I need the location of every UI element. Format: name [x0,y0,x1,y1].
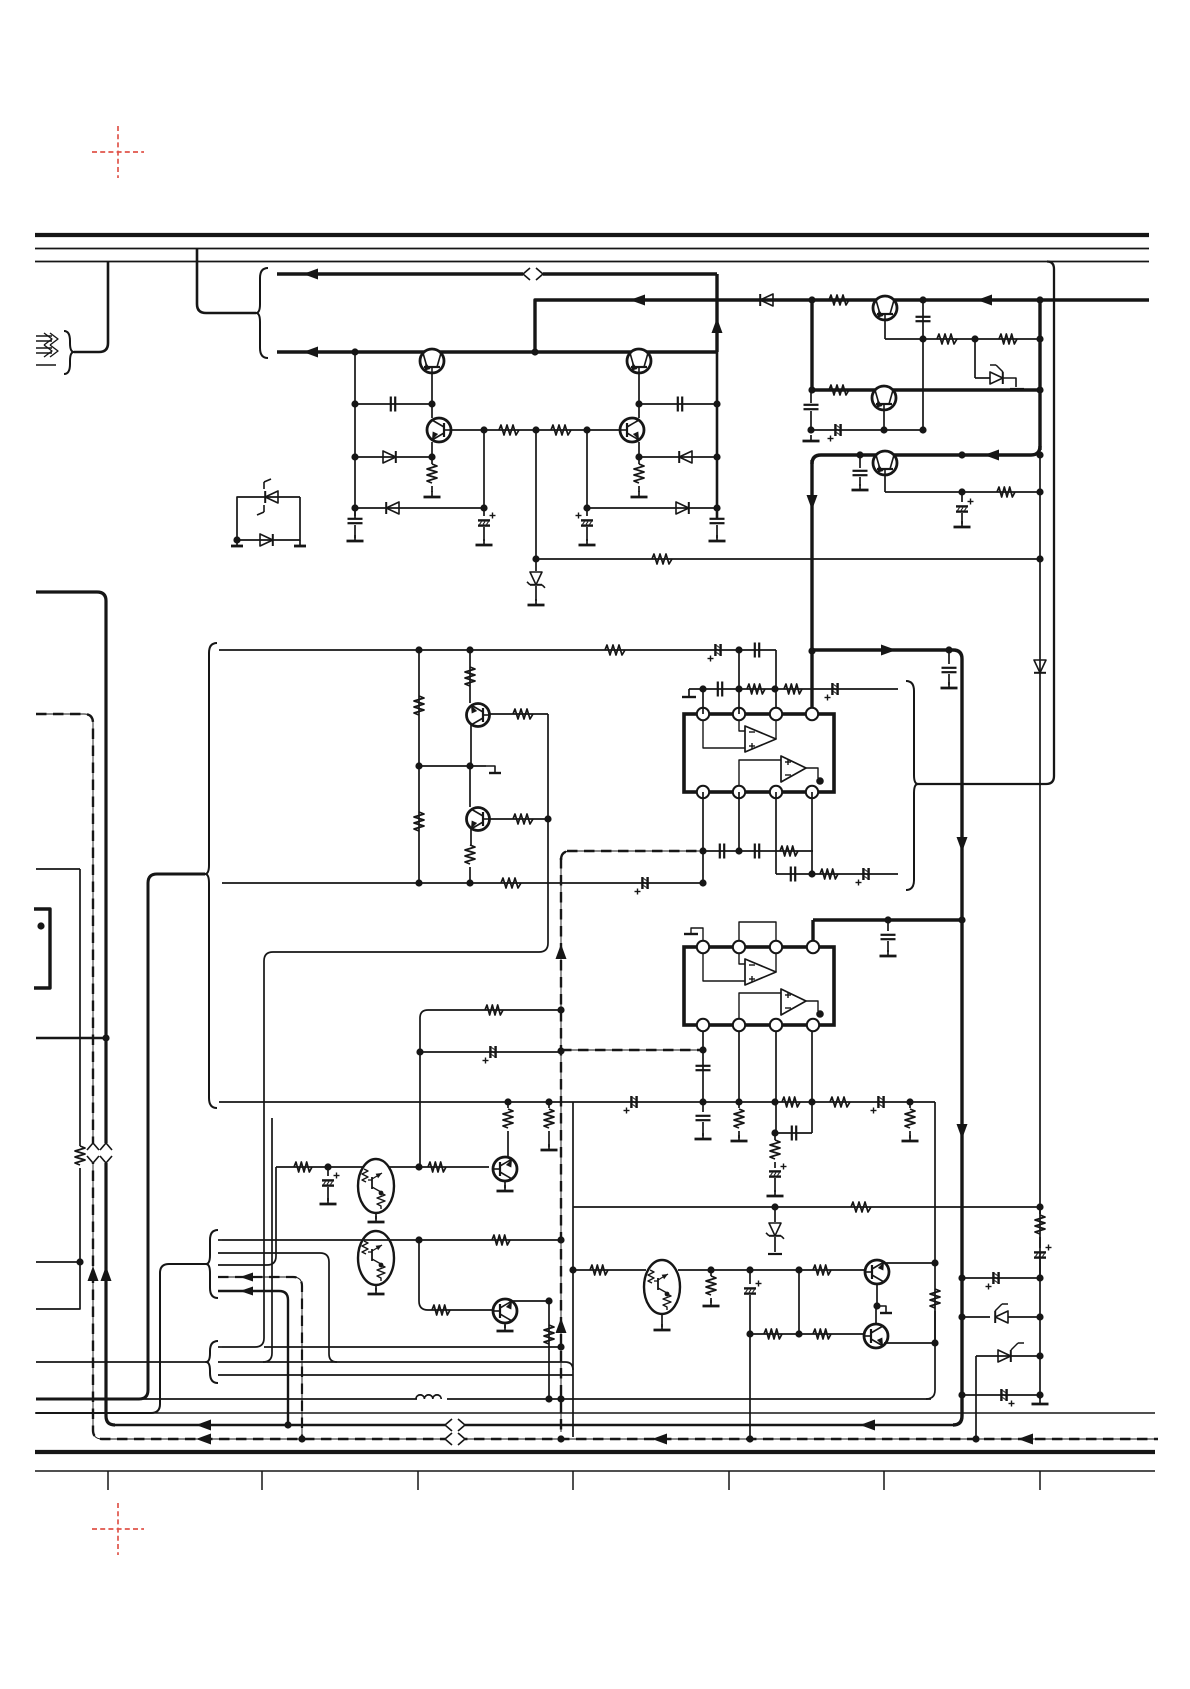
zener D301 (vert) [766,1207,784,1252]
dashed stub y851 [567,850,703,852]
transistor Q308 [865,1260,889,1284]
ground R322 [541,1144,558,1150]
wire x1040 thick upper [1038,300,1041,450]
resistor R305 (vert) [465,667,475,686]
digital transistor Q307 [644,1260,680,1314]
wire input stub [36,364,56,366]
capacitor C302 (elect) [708,644,721,662]
capacitor C452 in x812 [804,405,819,409]
wire x776 pin->y874 [775,792,777,874]
ground Q307 [654,1324,671,1330]
junction x1040/y1356 [1036,1352,1043,1359]
wire return bus y1425 [113,1424,953,1426]
ground x1040 end [1032,1398,1049,1404]
junction y1399/x561 [557,1395,564,1402]
resistor R330 [813,1265,831,1275]
break x106 [100,1143,112,1163]
wire harness line2 [218,1253,337,1362]
arrow down x812 [807,495,818,510]
junction dashed bus x750 [746,1435,753,1442]
brace signal group left [205,643,217,1108]
op-amp U301 pins [697,708,818,798]
ground below R403 [424,491,441,497]
ground below C406 [709,535,726,541]
junction SCR cell [233,536,240,543]
capacitor C309 [791,867,795,882]
wire y851 row [703,850,813,852]
wire Q451 emitter [884,320,886,339]
ground R329 [703,1300,720,1306]
ground below C405 [347,535,364,541]
junction x1040/y559 [1036,555,1043,562]
resistor R319 [851,1202,871,1212]
wire bottom thin rail [35,1412,1155,1414]
ground C455 [954,521,971,527]
wire y920 feed (thick) [813,918,962,921]
ground C317 [767,1190,784,1196]
wire Q307 out [678,1269,865,1271]
junction x1040/y455 [1036,451,1043,458]
junction x484 low [480,504,487,511]
wire left column x355 [354,352,356,519]
junction arrowbus x288 [284,1421,291,1428]
wire Q452 emitter [883,410,885,430]
junction x717 cap row [713,400,720,407]
wire Q403 base row [451,429,620,431]
resistor R307 [513,709,533,719]
resistor R404 (vert) [634,457,644,492]
wire x470 upper [469,650,471,703]
wire x739 pin->1102 [738,1031,740,1102]
junction x1040/y390 [1036,386,1043,393]
junction x739/y650 [735,646,742,653]
diode D407 [260,534,273,546]
junction Q401e [428,400,435,407]
junction x419/y883 [415,879,422,886]
junction Q404e [635,453,642,460]
capacitor C324 (elect) [483,1046,496,1064]
wire y1052 row [420,1051,561,1053]
arrow harness line4 [240,1273,253,1282]
op-amp U301 amp A [745,726,776,752]
capacitor C311 [881,920,896,952]
wire y1278 row [962,1277,1040,1279]
junction x812/y390 [808,386,815,393]
wire y1270 row [573,1269,646,1271]
resistor R327 (vert) [544,1325,554,1344]
junction x548/y819 [544,815,551,822]
brace input arrows [64,331,74,374]
ground C454 [852,484,869,490]
transistor Q452 [872,386,896,410]
junction x1040/y339 [1036,335,1043,342]
wire harness line8 [218,1374,573,1376]
wire y1010 row [420,1010,561,1167]
wire y455 rail (thick) [812,446,1040,464]
ground SCR right [294,540,306,546]
wire bottom frame line [35,1470,1155,1472]
diode D404 [676,502,689,514]
ground Q305 [368,1288,385,1294]
junction y352/x535 [531,348,538,355]
signal arrow in 2 [36,345,58,357]
junction Q452e [880,426,887,433]
wire x470 mid [469,766,471,807]
op-amp U301 body [684,714,834,792]
wire x812 rail (thick) [810,300,813,390]
junction x975/y339 [971,335,978,342]
wire top bus 3 [35,261,1149,263]
junction y352/x355 [351,348,358,355]
op-amp U302 amp B [781,989,806,1015]
wire y1133 row [775,1132,812,1134]
junction x739/y1102 [735,1098,742,1105]
junction x1040/y300 [1036,296,1043,303]
capacitor C402 [678,397,682,412]
wire y1262 stub [36,1261,80,1263]
junction x812/y651 [808,647,815,654]
junction x549/y1102 [545,1098,552,1105]
capacitor C320 (elect) [1034,1245,1052,1279]
ground SCR left [231,540,243,546]
resistor R454 [829,385,849,395]
capacitor C303 [755,643,759,658]
signal arrow in 1 [36,333,58,345]
thyristor D303 [976,1343,1040,1362]
wire right column x717 [716,352,719,519]
junction x799/y1270 [795,1266,802,1273]
arrow up dashed x561 b [556,1318,567,1333]
wire top bus B+ (thick) [35,233,1149,237]
thyristor D452 [975,365,1024,389]
op-amp U302 body [684,947,834,1025]
wire Q303 gnd [375,1213,377,1219]
junction dashed bus x302 [298,1435,305,1442]
wire x587 column [586,430,588,516]
arrow on y300 [630,295,645,306]
wire elbow from bus3 to input brace [74,262,108,352]
resistor R335 [485,1005,503,1015]
capacitor C401 [391,397,395,412]
op-amp U301 wiring [703,720,818,786]
wire x776 pin->1133 [775,1031,777,1133]
wire x812 lower (thick) [810,460,813,711]
triac D406 [257,479,278,515]
resistor R325 [492,1235,510,1245]
capacitor C312 [696,1066,711,1070]
junction x508/y1102 [504,1098,511,1105]
junction x812/y300 [808,296,815,303]
junction emitters [873,1302,880,1309]
junction x419/y1240 [415,1236,422,1243]
wire Q453 emitter [884,475,886,492]
junction x80 y1262 [76,1258,83,1265]
op-amp U302 pin5 dot [816,1010,824,1018]
wire x80 bottom hook [36,1262,80,1309]
wire y1399 inductor run [143,1398,931,1400]
transistor Q301 [467,704,490,727]
junction x923/y300 [919,296,926,303]
junction x573/y1270 [569,1266,576,1273]
junction x949/y650 [945,646,952,653]
junction x470/y883 [466,879,473,886]
transistor Q306 [493,1299,517,1323]
wire y559 to right rail [536,558,1040,560]
op-amp U302 wiring [703,953,818,1019]
wire Q301 base [490,713,548,715]
junction x536 y559 [532,555,539,562]
junction x355 low diode row [351,504,358,511]
diode D451 in y300 [760,294,773,306]
wire Q305 gnd [375,1285,377,1291]
wire x703 pin->y851 [702,792,704,883]
brace harness lower [206,1341,218,1383]
wire x419 hook to Q306 [419,1240,493,1310]
transistor Q302 [467,808,490,831]
junction x935/y1343 [931,1339,938,1346]
bar below D301 [768,1253,782,1255]
junction dashed x561/y1240 [557,1236,564,1243]
capacitor C404 (elect) [576,513,594,542]
wire y650 row [219,649,776,651]
ground below C403 [476,539,493,545]
transistor Q309 [864,1324,888,1348]
resistor R318 (vert) [770,1133,780,1168]
break x93 [87,1143,99,1163]
ground R317 [902,1135,919,1141]
wire y274 feedback (thick) [277,272,717,275]
junction x484 base row [480,426,487,433]
junction x888/y920 [884,916,891,923]
wire low diode row R [587,507,717,509]
wire Q308 collector [884,1262,935,1264]
junction x1040/y1278 [1036,1274,1043,1281]
wire Q304 emitter [504,1181,506,1188]
wire Q404 collector [638,404,640,418]
resistor R308 [513,814,533,824]
ground C323 [941,682,958,688]
tap ground y689 [682,689,696,697]
wire y1207 row [573,1206,1040,1208]
resistor R321 (vert) [503,1102,513,1157]
wire Q404 emitter [638,442,640,457]
diode D403 [386,502,399,514]
transistor Q451 [873,296,897,320]
junction dashed x561/y1347 [557,1343,564,1350]
junction dashed x561/y1010 [557,1006,564,1013]
brace IC1 output [906,681,918,890]
wire low diode row L [355,507,484,509]
ground Q304 [497,1185,514,1191]
ground below R404 [631,491,648,497]
wire bus3 elbow to x1054 [916,262,1054,785]
op-amp U301 pin5 dot [816,777,824,785]
resistor R311 [784,684,802,694]
wire brace5 feed [36,1264,206,1413]
resistor R309 [501,878,521,888]
diode D402 [679,451,692,463]
wire Q403 emitter [431,442,433,457]
junction Q403e [428,453,435,460]
wire harness line3 [218,1167,276,1265]
resistor R453 [999,334,1017,344]
capacitor C314 [696,1102,711,1136]
junction dashed end y851 [699,847,706,854]
wire x923 column [922,300,924,430]
junction x910/y1102 [906,1098,913,1105]
junction dashed x561/y1050 [557,1047,564,1054]
capacitor C306 (elect) [825,683,838,701]
capacitor C319 (elect) [744,1270,762,1334]
wire top bus 2 [35,248,1149,250]
ground Q303 [368,1216,385,1222]
wire bottom ground bus (thick) [35,1450,1155,1454]
resistor R403 (vert) [427,457,437,492]
arrow up on x717 [712,318,723,333]
junction Q402e [635,400,642,407]
junction x811/y430 [807,426,814,433]
ground C314 [695,1133,712,1139]
resistor R333 (vert) [930,1289,940,1343]
junction x962/y1317 [958,1313,965,1320]
junction x812/y874 [808,870,815,877]
junction x750/y1270 [746,1266,753,1273]
resistor R407 [652,554,672,564]
resistor R328 [590,1265,608,1275]
wire x776 drop [775,650,777,714]
arrow on y352 [303,347,318,358]
junction x962/y455 [958,451,965,458]
junction x799/y1334 [795,1330,802,1337]
resistor R405 [499,425,519,435]
wire x799 link [798,1270,800,1334]
resistor R322 (vert) [544,1102,554,1147]
ground below D405 [528,599,545,605]
op-amp U302 pins [697,941,819,1031]
junction x812/y1102 [808,1098,815,1105]
junction x923/y339 [919,335,926,342]
wire Q403 collector [431,404,433,418]
wire Q302 emitter [470,828,472,845]
junction x711/y1270 [707,1266,714,1273]
arrow up dashed x561 a [556,944,567,959]
registration cross top-left [92,126,144,178]
resistor R329 (vert) [706,1270,716,1303]
junction x1040/y1395 [1036,1391,1043,1398]
wire y689 row [689,688,898,690]
wire y430 row [811,429,923,431]
junction x860/y455 [856,451,863,458]
wire x548 column [222,714,548,1347]
resistor R312 [780,846,798,856]
junction x106 y1038 [102,1034,109,1041]
junction x419/y766 [415,762,422,769]
junction x419/y650 [415,646,422,653]
wire Q301 emitter drop [470,724,472,766]
wire x484 column [483,430,485,516]
tap on y766 [486,766,501,773]
resistor R406 [551,425,571,435]
junction x355 cap row [351,400,358,407]
capacitor C313 (elect) [624,1096,637,1114]
capacitor C307 [720,844,724,859]
junction x328/y1167 [324,1163,331,1170]
op-amp U302 amp A [745,959,776,985]
capacitor C317 (elect) [769,1164,787,1193]
wire SCR cell loop [237,497,300,540]
resistor R303 (vert) [414,696,424,715]
ground x811 [803,435,820,441]
resistor R452 [937,334,957,344]
wire Q309 collector [884,1342,935,1344]
resistor R314 (vert) [734,1102,744,1138]
junction x470/y766 [466,762,473,769]
junction x703/y883 [699,879,706,886]
resistor R310 [747,684,765,694]
wire y869 stub [36,868,80,870]
wire x750 to dashed bus [749,1334,751,1439]
wire y300 rail right (thick) [535,300,1149,352]
capacitor C453 (elect) [828,424,841,442]
dashed main path [36,714,1158,1439]
capacitor C304 (elect) [635,877,648,895]
dashed x561 rail [560,858,562,1432]
ground below C404 [579,539,596,545]
ground C311 [880,950,897,956]
transistor Q453 [873,451,897,475]
wire pin4 to y920 [811,920,814,941]
wire Q307 gnd [661,1314,663,1327]
wire y492 row [885,491,1040,493]
capacitor C318 (elect) [322,1167,340,1201]
wire x935 corner [926,1102,935,1399]
resistor R317 (vert) [905,1102,915,1138]
wire y1347 right [264,1346,561,1348]
arrow up x93 [88,1266,99,1281]
junction x962/y492 [958,488,965,495]
wire brace6 feed [36,1361,206,1363]
capacitor C406 bottom right [710,508,725,538]
capacitor C455 (elect) [956,492,974,524]
wire x739 pin2 up [738,650,740,714]
wire x962 feed (thick) [812,650,962,1425]
junction x419/y1167 [415,1163,422,1170]
op-amp U302 pin loop [739,922,776,941]
wire cap row y404 L [355,403,432,405]
junction x703/y689 [699,685,706,692]
resistor R451 [829,295,849,305]
junction x750/y1334 [746,1330,753,1337]
wire SCR drop [974,339,976,378]
wire x573 column [572,1102,574,1437]
ground R314 [731,1135,748,1141]
wire y766 row [419,765,486,767]
wire diode row y457 L [355,456,432,458]
wire y339 row [885,338,1040,340]
transistor Q304 [493,1157,517,1181]
wire x811 stub [810,390,812,430]
wire harness line1 [218,1239,222,1241]
wire x717 riser (thick) [715,274,718,352]
wire elbow from bus2 [197,249,256,313]
arrow dashed bus c [1018,1434,1033,1445]
capacitor C310 (elect) [856,868,869,886]
capacitor C305 [718,682,722,697]
resistor R304 (vert) [414,812,424,831]
transistor Q403 [427,418,451,442]
arrow down x962 a [957,837,968,852]
junction x470/y650 [466,646,473,653]
